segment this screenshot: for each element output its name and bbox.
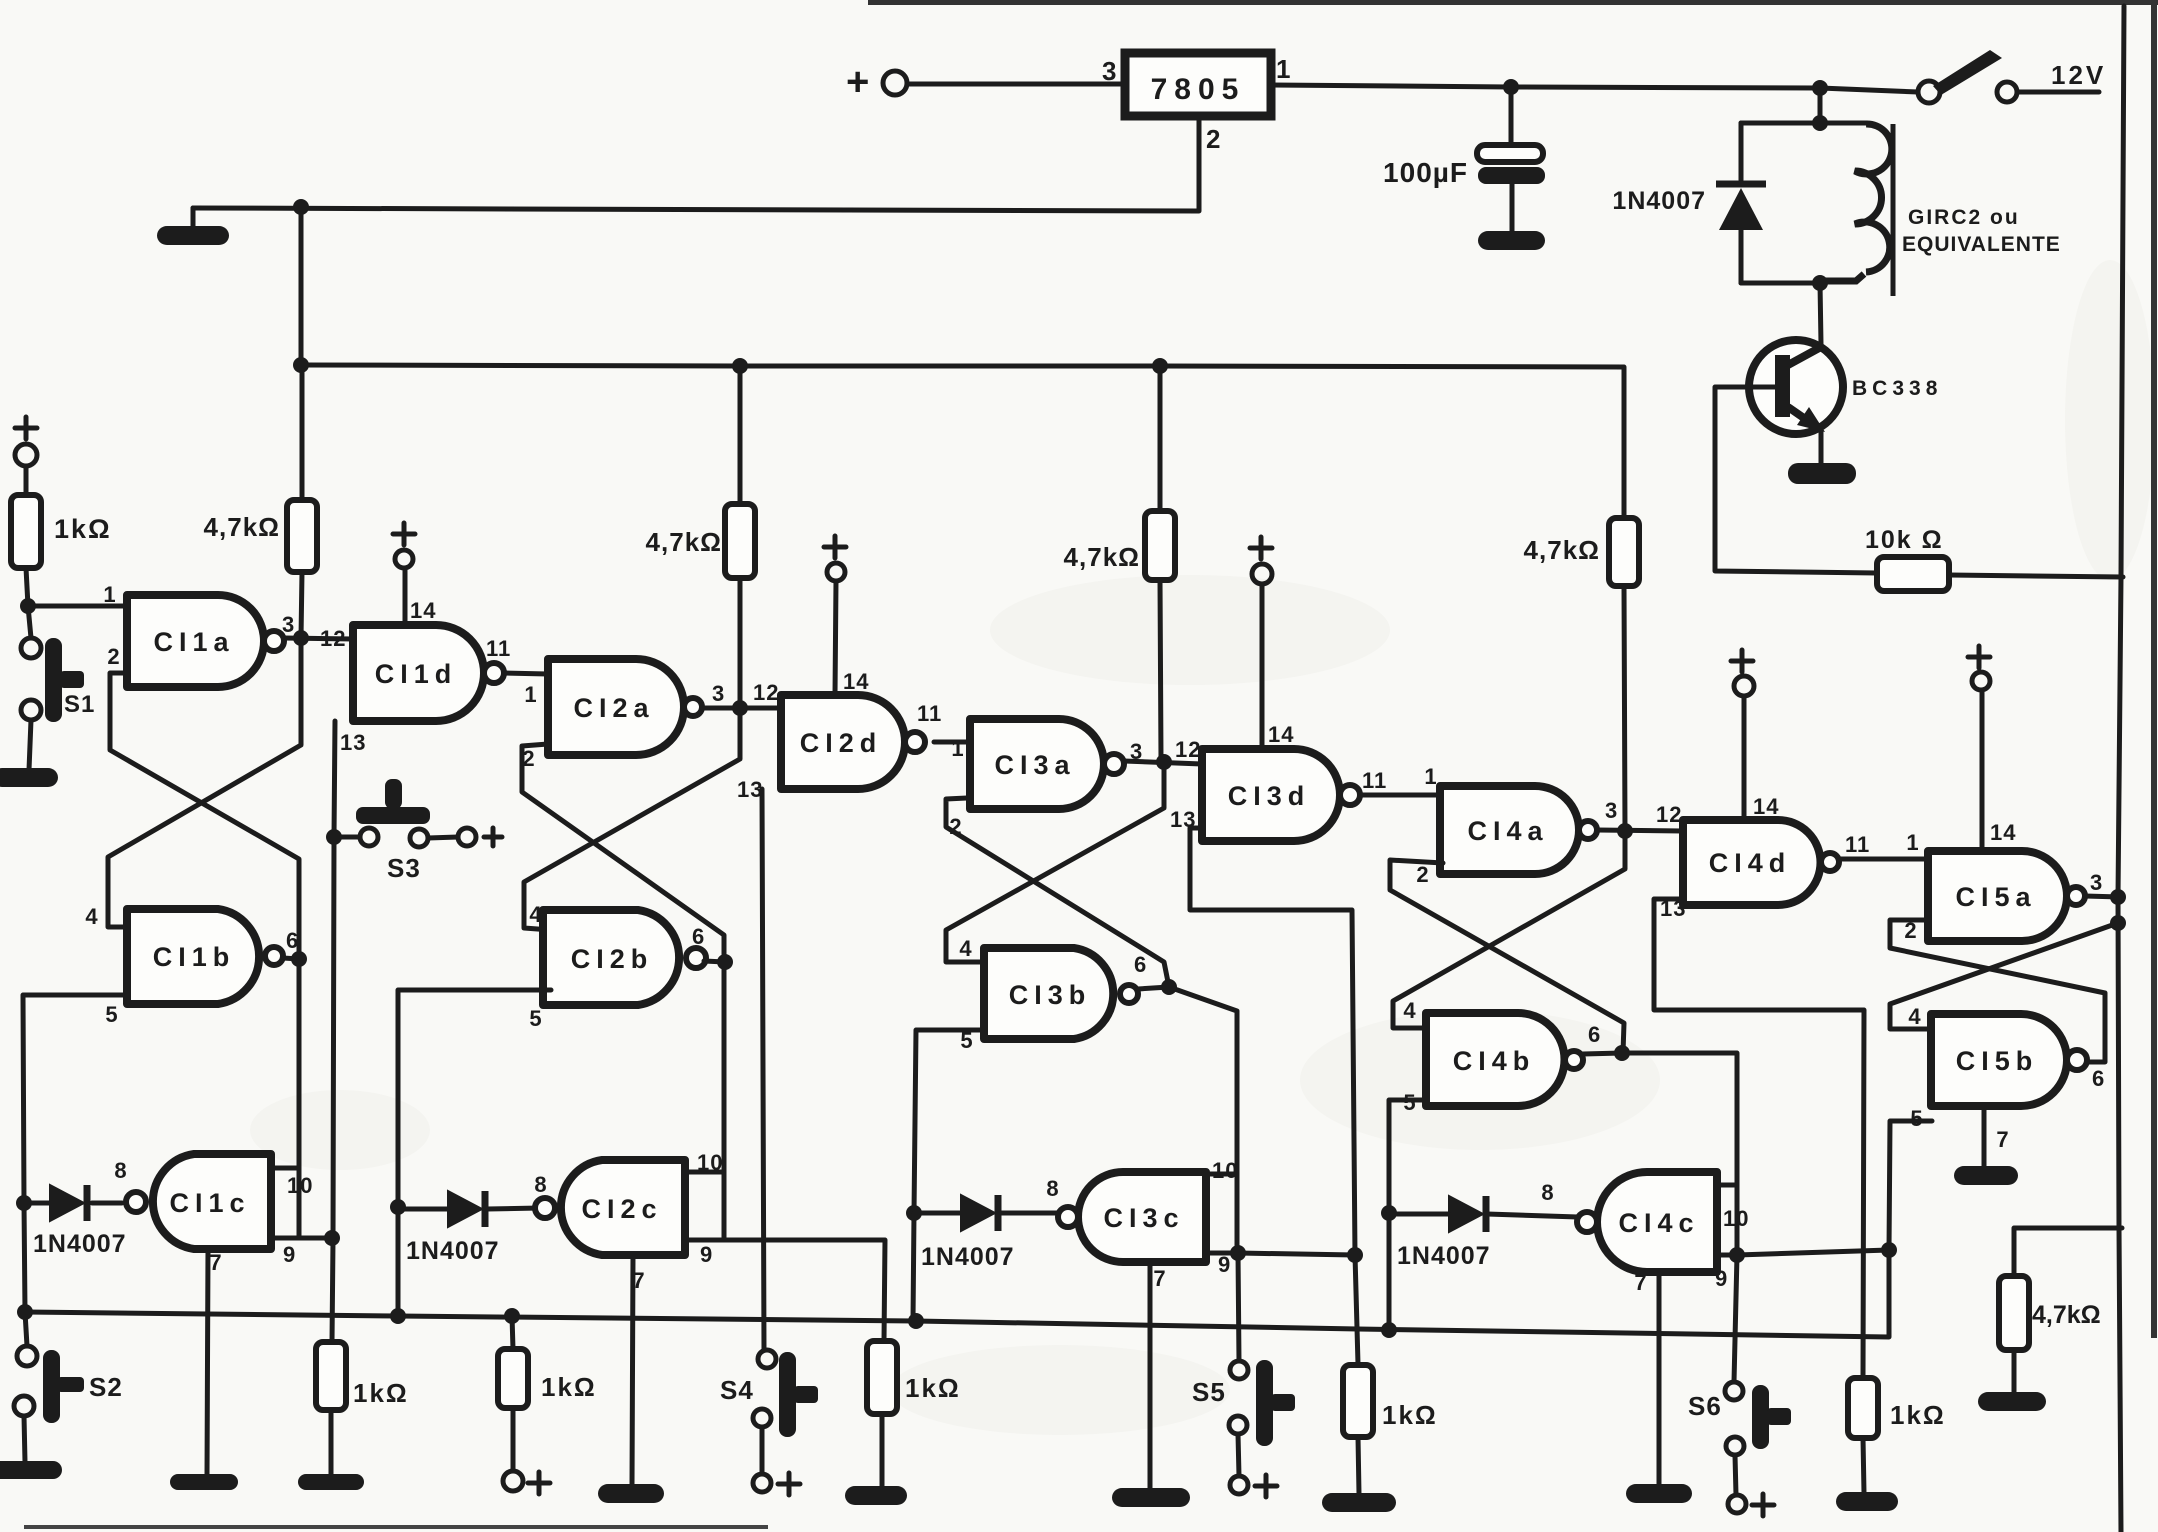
- wire CI3a out to CI3d pin12: [1124, 761, 1202, 764]
- wire S4 to + terminal: [760, 1427, 765, 1474]
- wire bottom common rail: [25, 1250, 1889, 1337]
- wire 4k7 supply rail: [301, 365, 1624, 518]
- svg-text:4: 4: [1908, 1004, 1921, 1029]
- svg-text:9: 9: [1715, 1266, 1728, 1291]
- switch S1 terminal a: [21, 638, 41, 658]
- svg-text:1kΩ: 1kΩ: [1890, 1400, 1946, 1430]
- ground below S1: [0, 768, 58, 787]
- wire CI3a out to CI3b pin4: [946, 762, 1164, 962]
- svg-text:4,7kΩ: 4,7kΩ: [204, 512, 280, 542]
- wire 4k7 stage2 to CI2a out: [738, 578, 743, 707]
- wire diode to CI1c pin8: [92, 1201, 122, 1206]
- wire CI3b out down to CI3c: [1169, 987, 1237, 1253]
- svg-text:3: 3: [1102, 56, 1117, 86]
- node pin9 S5 stage3: [1230, 1245, 1246, 1261]
- node CI4a output: [1617, 823, 1633, 839]
- switch S4 terminal b: [753, 1409, 771, 1427]
- wire 4k7 stage4 to CI4a out: [1624, 586, 1625, 831]
- diode 1N4007 stage3: [961, 1195, 995, 1231]
- wire supply tap down to 4k7 rail: [299, 207, 304, 365]
- ground below transistor emitter: [1788, 463, 1856, 484]
- svg-text:6: 6: [1588, 1022, 1601, 1047]
- NAND gate CI1b: [127, 909, 259, 1004]
- svg-text:5: 5: [529, 1006, 542, 1031]
- capacitor 100uF top plate: [1477, 145, 1543, 162]
- wire diode to CI4c pin8: [1487, 1214, 1578, 1217]
- wire CI3d pin14 to +: [1260, 584, 1265, 749]
- wire rail to 1k plus: [512, 1316, 513, 1349]
- terminal + S6: [1728, 1495, 1746, 1513]
- node diode anode stage1: [16, 1195, 32, 1211]
- input + terminal: [883, 71, 907, 95]
- svg-text:6: 6: [1134, 952, 1147, 977]
- node S1/pin1: [20, 598, 36, 614]
- wire CI5b pin7 to ground: [1982, 1106, 1987, 1167]
- svg-text:1kΩ: 1kΩ: [353, 1378, 409, 1408]
- wire CI2b pin5 to diode node: [398, 990, 551, 1204]
- wire 4.7k output to ground: [2012, 1350, 2017, 1393]
- node CI5a output: [2110, 889, 2126, 905]
- wire diode node stage2 to rail: [396, 1207, 401, 1316]
- wire CI3b pin5 to diode node: [914, 1030, 984, 1213]
- NAND gate CI3d: [1202, 749, 1340, 841]
- wire capacitor to ground: [1510, 184, 1515, 232]
- svg-text:9: 9: [283, 1242, 296, 1267]
- svg-text:7: 7: [209, 1250, 222, 1275]
- svg-text:3: 3: [712, 681, 725, 706]
- svg-text:12: 12: [1175, 737, 1201, 762]
- node rail diode stage3: [908, 1313, 924, 1329]
- svg-text:CI3d: CI3d: [1228, 781, 1311, 811]
- switch S5 terminal a: [1230, 1361, 1248, 1379]
- switch S1 lever: [45, 638, 62, 722]
- wire CI4c pin9: [1717, 1250, 1889, 1255]
- ground CI5b pin7: [1954, 1166, 2018, 1185]
- node rail 1k plus: [504, 1308, 520, 1324]
- svg-text:4,7kΩ: 4,7kΩ: [2032, 1301, 2101, 1329]
- wire relay diode branch lower: [1739, 230, 1744, 283]
- svg-text:S3: S3: [387, 853, 421, 883]
- wire node to S3: [334, 835, 360, 840]
- wire base to 10k resistor: [1715, 387, 1877, 573]
- wire CI4c pin10 jog: [1717, 1183, 1737, 1188]
- svg-text:8: 8: [1541, 1180, 1554, 1205]
- node supply tap on pin2 wire: [293, 199, 309, 215]
- svg-text:GIRC2 ou: GIRC2 ou: [1908, 206, 2020, 229]
- wire relay to collector: [1820, 283, 1821, 344]
- svg-text:CI5a: CI5a: [1955, 882, 2036, 912]
- svg-text:CI2d: CI2d: [800, 728, 883, 758]
- wire 1k stage2 to ground: [880, 1414, 885, 1487]
- wire CI4d pin13 down to rail and 1k: [1654, 899, 1864, 1378]
- wire CI4c pin7 to ground: [1657, 1275, 1662, 1485]
- svg-text:CI2c: CI2c: [581, 1194, 662, 1224]
- plus CI2d pin14: [824, 536, 846, 558]
- wire CI4a pin2 to CI4b out: [1390, 860, 1624, 1053]
- wire CI3d pin13 down: [1190, 828, 1355, 1255]
- NAND gate CI1a: [127, 595, 264, 687]
- resistor 4.7k output: [1999, 1276, 2029, 1350]
- wire node to diode stage2: [398, 1207, 448, 1212]
- wire 1k stage1 to ground: [329, 1410, 334, 1476]
- svg-text:13: 13: [340, 730, 366, 755]
- wire CI4d out to CI5a pin1: [1840, 857, 1928, 862]
- node diode anode stage2: [390, 1199, 406, 1215]
- node rail diode stage4: [1381, 1322, 1397, 1338]
- svg-text:CI2b: CI2b: [571, 944, 654, 974]
- wire right-edge 12V feed: [2118, 6, 2124, 1532]
- svg-text:BC338: BC338: [1852, 377, 1942, 400]
- wire CI2c pin7 to ground: [632, 1255, 633, 1485]
- wire CI1a pin2 to CI1b out to CI1c: [110, 673, 299, 1238]
- NAND gate CI4c: [1597, 1172, 1717, 1272]
- svg-text:4: 4: [1403, 998, 1416, 1023]
- wire CI1d pin14 to +: [403, 568, 408, 625]
- wire S6 to + terminal: [1735, 1455, 1736, 1495]
- wire relay top: [1741, 121, 1866, 126]
- node rail col1: [293, 357, 309, 373]
- svg-text:CI1c: CI1c: [169, 1188, 250, 1218]
- svg-text:14: 14: [1268, 722, 1294, 747]
- wire CI4a out to CI4b pin4: [1393, 831, 1625, 1028]
- NAND gate CI2d: [781, 695, 905, 789]
- switch S2 terminal b: [14, 1396, 34, 1416]
- svg-text:3: 3: [1605, 798, 1618, 823]
- svg-text:11: 11: [486, 636, 511, 661]
- wire CI3c pin10 jog: [1206, 1172, 1237, 1177]
- svg-text:S5: S5: [1192, 1377, 1226, 1407]
- svg-text:+: +: [846, 60, 870, 104]
- svg-text:9: 9: [1218, 1252, 1231, 1277]
- svg-text:1kΩ: 1kΩ: [905, 1373, 961, 1403]
- capacitor 100uF bottom plate: [1478, 167, 1545, 184]
- NAND gate CI4a: [1440, 786, 1579, 874]
- ground for 7805 pin2: [157, 226, 229, 245]
- NAND gate CI4b: [1426, 1013, 1565, 1106]
- ground CI1c pin7: [170, 1474, 238, 1490]
- resistor 1k stage3: [1343, 1365, 1373, 1437]
- terminal + CI4d pin14: [1734, 676, 1754, 696]
- svg-text:6: 6: [286, 928, 299, 953]
- NAND gate CI5a: [1928, 851, 2067, 941]
- wire 1k to + terminal: [511, 1408, 516, 1471]
- wire diode to CI3c pin8: [999, 1211, 1066, 1216]
- svg-text:4: 4: [529, 902, 542, 927]
- svg-text:CI3c: CI3c: [1103, 1203, 1184, 1233]
- switch S2 terminal a: [17, 1346, 37, 1366]
- svg-text:CI1a: CI1a: [153, 627, 234, 657]
- svg-text:1N4007: 1N4007: [921, 1243, 1015, 1271]
- switch S3 terminal b: [410, 829, 428, 847]
- ground 1k stage3: [1322, 1493, 1396, 1512]
- svg-text:1: 1: [524, 682, 537, 707]
- wire CI3c pin7 to ground: [1148, 1262, 1153, 1489]
- svg-text:1kΩ: 1kΩ: [1382, 1400, 1438, 1430]
- node pin9 pin13 stage3: [1347, 1247, 1363, 1263]
- wire terminal to R1: [24, 466, 29, 495]
- terminal + CI5a pin14: [1972, 672, 1990, 690]
- node rail diode stage2: [390, 1308, 406, 1324]
- resistor 1k stage1: [316, 1342, 346, 1410]
- voltage regulator 7805: [1125, 53, 1271, 116]
- switch S3 button: [356, 807, 430, 824]
- plus CI3d pin14: [1250, 537, 1272, 559]
- plus S5: [1255, 1475, 1277, 1497]
- wire top rail to relay: [1818, 88, 1823, 123]
- NAND gate CI1c: [153, 1154, 271, 1249]
- terminal + S4: [753, 1474, 771, 1492]
- plus CI4d pin14: [1731, 650, 1753, 672]
- svg-text:5: 5: [105, 1002, 118, 1027]
- svg-text:CI1b: CI1b: [153, 942, 236, 972]
- resistor 4.7k stage3: [1145, 511, 1175, 580]
- svg-text:7805: 7805: [1151, 73, 1246, 106]
- ground 1k stage4: [1836, 1492, 1898, 1511]
- node CI2b output: [717, 954, 733, 970]
- switch S5 lever: [1256, 1360, 1273, 1446]
- wire diode node stage4 to rail: [1387, 1213, 1392, 1330]
- resistor 1k stage2: [867, 1341, 897, 1414]
- wire S3 to + terminal: [428, 837, 458, 838]
- wire CI4d pin14 to +: [1742, 696, 1747, 820]
- svg-text:14: 14: [843, 669, 869, 694]
- node CI2a output: [732, 700, 748, 716]
- wire 4k7 to CI1a output: [301, 572, 302, 638]
- node diode anode stage4: [1381, 1205, 1397, 1221]
- node CI3b output: [1161, 979, 1177, 995]
- terminal + CI3d pin14: [1252, 564, 1272, 584]
- svg-text:CI5b: CI5b: [1956, 1046, 2039, 1076]
- wire 7805 pin 2 to ground: [193, 116, 1199, 211]
- switch S2 lever: [43, 1350, 60, 1423]
- wire CI4b out: [1583, 1053, 1622, 1054]
- wire CI1b out: [283, 958, 299, 959]
- wire rail to 4k7 stage1 upper: [300, 365, 305, 440]
- wire node to CI1a pin1: [28, 604, 127, 609]
- wire rail to 4k7 stage3: [1158, 366, 1163, 511]
- wire diode node stage3 to rail: [913, 1213, 914, 1321]
- wire rail to 4k7 stage2: [738, 366, 743, 504]
- svg-text:CI1d: CI1d: [375, 659, 458, 689]
- svg-text:1: 1: [951, 736, 964, 761]
- terminal + S3: [458, 828, 476, 846]
- node CI1a output: [293, 630, 309, 646]
- node CI3a output: [1156, 754, 1172, 770]
- NAND gate CI2a: [548, 659, 684, 755]
- svg-text:1: 1: [1276, 54, 1291, 84]
- wire CI2c pin10 jog: [685, 1170, 724, 1175]
- wire CI2c pin9 down to 1k: [685, 1240, 885, 1341]
- switch 12V terminal a: [1918, 81, 1940, 103]
- node CI5b pin4 branch: [2110, 915, 2126, 931]
- svg-text:4,7kΩ: 4,7kΩ: [646, 527, 722, 557]
- switch S6 terminal b: [1726, 1437, 1744, 1455]
- wire CI4a out to CI4d pin12: [1597, 830, 1683, 831]
- svg-text:9: 9: [700, 1242, 713, 1267]
- svg-text:14: 14: [1990, 820, 2016, 845]
- node cap junction top rail: [1503, 79, 1519, 95]
- node rail S2: [17, 1304, 33, 1320]
- switch 12V terminal b: [1997, 82, 2017, 102]
- wire CI3a pin2 to CI3b out: [946, 798, 1169, 987]
- wire 10k to right edge wire: [1949, 575, 2123, 577]
- resistor 10k base: [1877, 557, 1949, 591]
- svg-text:14: 14: [1753, 794, 1779, 819]
- svg-text:3: 3: [282, 612, 295, 637]
- NAND gate CI2c: [561, 1160, 685, 1255]
- switch S1 terminal b: [21, 700, 41, 720]
- wire emitter to ground: [1819, 430, 1824, 464]
- wire S5 to + terminal: [1238, 1434, 1239, 1476]
- svg-text:CI4b: CI4b: [1453, 1046, 1536, 1076]
- svg-text:CI2a: CI2a: [573, 693, 654, 723]
- node rail col2: [732, 358, 748, 374]
- switch S5 terminal b: [1229, 1416, 1247, 1434]
- wire CI2d out to CI3a pin1: [934, 740, 970, 745]
- NAND gate CI3c: [1078, 1172, 1206, 1262]
- svg-text:10: 10: [697, 1150, 723, 1175]
- plus CI1d pin14: [393, 523, 415, 545]
- switch S6 lever: [1752, 1385, 1769, 1449]
- NAND gate CI3b: [984, 948, 1113, 1039]
- terminal + below 1k: [503, 1471, 523, 1491]
- resistor 1k to plus: [498, 1349, 528, 1408]
- plus for R1 pull-up: [15, 417, 37, 439]
- scan border top edge: [868, 0, 2158, 5]
- plus S3: [484, 828, 502, 846]
- wire S1 to ground: [29, 720, 31, 770]
- wire node to 1k stage3: [1355, 1255, 1358, 1364]
- ground below S2: [0, 1461, 62, 1479]
- wire diode node to rail: [24, 1203, 25, 1311]
- svg-text:7: 7: [1996, 1127, 2009, 1152]
- wire CI1c pin9 to pin13 line: [271, 1236, 332, 1241]
- wire CI2d pin14 to +: [835, 581, 836, 695]
- terminal + CI1d pin14: [395, 550, 413, 568]
- wire CI2b out: [704, 961, 725, 962]
- switch S4 terminal a: [758, 1350, 776, 1368]
- svg-text:1N4007: 1N4007: [1397, 1242, 1491, 1270]
- NAND gate CI1d: [353, 625, 484, 721]
- svg-text:4: 4: [85, 904, 98, 929]
- svg-text:CI3b: CI3b: [1009, 980, 1092, 1010]
- node pin9 CI5b pin5: [1881, 1242, 1897, 1258]
- resistor 1k stage4: [1848, 1378, 1878, 1438]
- switch 12V lever: [1933, 50, 2002, 95]
- relay coil GIRC2: [1855, 124, 1892, 272]
- svg-text:1N4007: 1N4007: [1612, 187, 1706, 215]
- node pin9 S6 stage4: [1729, 1247, 1745, 1263]
- plus CI5a pin14: [1968, 646, 1990, 668]
- node relay branch on top rail: [1812, 80, 1828, 96]
- wire CI3b out: [1138, 987, 1169, 989]
- svg-text:6: 6: [692, 924, 705, 949]
- wire CI5a pin2 to CI5b out: [1890, 920, 2105, 1062]
- svg-text:12: 12: [1656, 802, 1682, 827]
- wire relay bottom: [1741, 281, 1824, 286]
- resistor 4.7k stage4: [1609, 518, 1639, 586]
- NAND gate CI5b: [1931, 1014, 2067, 1106]
- svg-text:10: 10: [1212, 1158, 1238, 1183]
- node pin9 stage1: [324, 1230, 340, 1246]
- svg-text:1: 1: [1424, 764, 1437, 789]
- wire 1k stage4 to ground: [1863, 1438, 1864, 1493]
- wire node to S5: [1238, 1253, 1239, 1361]
- wire CI3d out to CI4a pin1: [1360, 793, 1440, 798]
- svg-text:1N4007: 1N4007: [33, 1230, 127, 1258]
- wire CI5a out to right edge: [2085, 896, 2120, 897]
- diode 1N4007 stage4: [1449, 1196, 1483, 1232]
- node diode anode stage3: [906, 1205, 922, 1221]
- ground CI3c pin7: [1112, 1488, 1190, 1507]
- wire 1k stage3 to ground: [1358, 1437, 1359, 1494]
- svg-text:S6: S6: [1688, 1391, 1722, 1421]
- svg-text:S4: S4: [720, 1375, 754, 1405]
- svg-text:7: 7: [1153, 1266, 1166, 1291]
- switch S4 lever: [779, 1352, 796, 1437]
- wire CI3c pin9: [1206, 1253, 1355, 1255]
- wire CI2a out to CI2d pin12: [703, 706, 781, 711]
- svg-text:7: 7: [1634, 1270, 1647, 1295]
- svg-text:CI3a: CI3a: [994, 750, 1075, 780]
- svg-text:6: 6: [2092, 1066, 2105, 1091]
- scan border bottom-left edge: [24, 1525, 768, 1529]
- transistor Q1 BC338: [1749, 340, 1843, 434]
- wire CI2d pin13 to S4: [762, 789, 764, 1350]
- wire S2 to ground: [24, 1416, 25, 1462]
- wire 4k7 stage3 to CI3a out: [1160, 580, 1161, 759]
- svg-text:EQUIVALENTE: EQUIVALENTE: [1902, 233, 2061, 256]
- wire CI1a out to CI1b pin4: [108, 638, 301, 927]
- svg-text:1kΩ: 1kΩ: [541, 1372, 597, 1402]
- NAND gate CI3a: [970, 719, 1104, 809]
- wire switch to 12V: [2017, 90, 2099, 95]
- wire node to diode stage3: [914, 1211, 961, 1216]
- wire rail to 4k7 stage1: [300, 436, 305, 500]
- node rail col3: [1152, 358, 1168, 374]
- wire CI1d pin13 to S3 and 1k: [332, 721, 335, 1342]
- wire CI1c pin7 to ground: [207, 1249, 208, 1476]
- node CI4b output: [1614, 1045, 1630, 1061]
- svg-text:2: 2: [107, 644, 120, 669]
- wire 7805 pin1 to switch: [1271, 85, 1918, 92]
- node relay top: [1812, 115, 1828, 131]
- switch S3 terminal a: [360, 828, 378, 846]
- svg-text:11: 11: [1845, 832, 1870, 857]
- diode 1N4007 stage2: [448, 1191, 482, 1227]
- wire relay diode branch upper: [1739, 123, 1744, 180]
- svg-text:10k Ω: 10k Ω: [1865, 526, 1944, 554]
- plus S4: [778, 1473, 800, 1495]
- wire node to diode stage4: [1389, 1212, 1449, 1217]
- svg-text:8: 8: [114, 1158, 127, 1183]
- node relay bottom: [1812, 275, 1828, 291]
- wire + input to 7805 pin 3: [907, 82, 1125, 87]
- svg-text:100µF: 100µF: [1383, 157, 1468, 188]
- svg-text:2: 2: [1206, 124, 1221, 154]
- svg-text:1N4007: 1N4007: [406, 1237, 500, 1265]
- svg-text:S1: S1: [64, 691, 95, 718]
- ground 4.7k output: [1978, 1392, 2046, 1411]
- wire CI1c pin10 jog: [271, 1166, 299, 1171]
- svg-text:1: 1: [1906, 830, 1919, 855]
- wire to capacitor C 100uF: [1509, 87, 1514, 146]
- ground CI2c pin7: [598, 1484, 664, 1503]
- ground below capacitor: [1478, 231, 1545, 250]
- wire R1 to node pin1: [26, 568, 28, 606]
- NAND gate CI2b: [543, 910, 679, 1005]
- wire diode to CI2c pin8: [487, 1208, 540, 1209]
